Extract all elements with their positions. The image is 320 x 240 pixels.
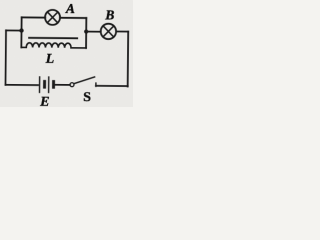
wire battery to switch	[55, 84, 70, 86]
lamp B	[101, 24, 117, 40]
wire bottom-left horizontal	[5, 84, 38, 86]
node junction dot right	[84, 29, 88, 33]
wire lamp A to right corner	[60, 17, 86, 19]
wire outer-left vertical	[4, 30, 7, 84]
svg-text:L: L	[45, 52, 55, 67]
switch S pivot circle	[70, 83, 74, 87]
battery E	[40, 77, 56, 93]
wire left feed horizontal	[6, 29, 21, 31]
wire switch to right corner	[96, 85, 128, 87]
wire top horizontal (loop top)	[22, 16, 46, 18]
svg-text:A: A	[65, 1, 75, 16]
wire to lamp B	[86, 31, 101, 33]
wire right vertical	[127, 32, 130, 87]
wire lamp B to right edge	[116, 30, 128, 32]
lamp A	[45, 10, 60, 25]
node junction dot left	[19, 28, 23, 32]
svg-text:E: E	[39, 95, 49, 107]
inductor L iron core line	[29, 37, 77, 39]
svg-text:B: B	[104, 8, 114, 23]
switch S right contact tick	[95, 83, 97, 86]
wire inner-left vertical of loop	[20, 17, 22, 47]
svg-text:S: S	[83, 90, 91, 105]
wire inner-right vertical of loop	[85, 18, 87, 48]
inductor L coil	[21, 43, 86, 48]
switch S blade	[74, 77, 95, 84]
